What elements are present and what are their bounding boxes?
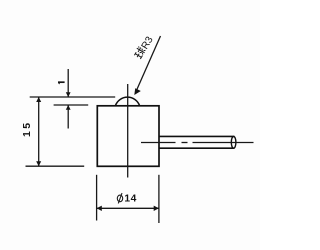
leader arrowhead [134, 88, 141, 95]
extension line at cylinder top [54, 104, 89, 106]
phi14 left extension line [96, 175, 98, 221]
cylinder body (plunger housing) [97, 106, 159, 167]
rod centerline dash 2 [193, 142, 254, 144]
dimension 15 line [38, 97, 40, 166]
dimension phi14 line [97, 207, 159, 209]
rod bottom edge [159, 147, 234, 149]
dimension 15 upper arrowhead [36, 97, 41, 102]
dimension 1 lower line [67, 105, 69, 129]
rod centerline dash 1 [141, 142, 176, 144]
svg-text:15: 15 [21, 121, 33, 137]
dimension 1 label serif tick [58, 82, 59, 84]
dimension 15 lower arrowhead [36, 161, 41, 166]
dimension 1 down arrowhead [66, 92, 71, 97]
leader line for ball [136, 36, 161, 92]
extension line at cylinder bottom [26, 165, 85, 167]
phi14 right arrowhead [154, 206, 159, 211]
phi14 left arrowhead [97, 206, 102, 211]
svg-text:14: 14 [124, 193, 136, 204]
dimension 1 upper line [67, 69, 69, 97]
rod end cap [231, 136, 236, 148]
extension line at ball apex [30, 96, 116, 98]
vertical centerline [127, 84, 129, 178]
rod top edge [159, 135, 234, 137]
leader label 球R3 [133, 34, 156, 61]
rod centerline dot [182, 142, 188, 144]
phi14 right extension line [158, 175, 160, 223]
dimension 1 label (rotated digit drawn as bar) [58, 81, 65, 83]
dimension 1 up arrowhead [66, 105, 71, 110]
ball tip R3 arc [115, 97, 139, 105]
dimension phi14 label: phi symbol [117, 193, 122, 203]
kanji 球 strokes [133, 46, 146, 59]
